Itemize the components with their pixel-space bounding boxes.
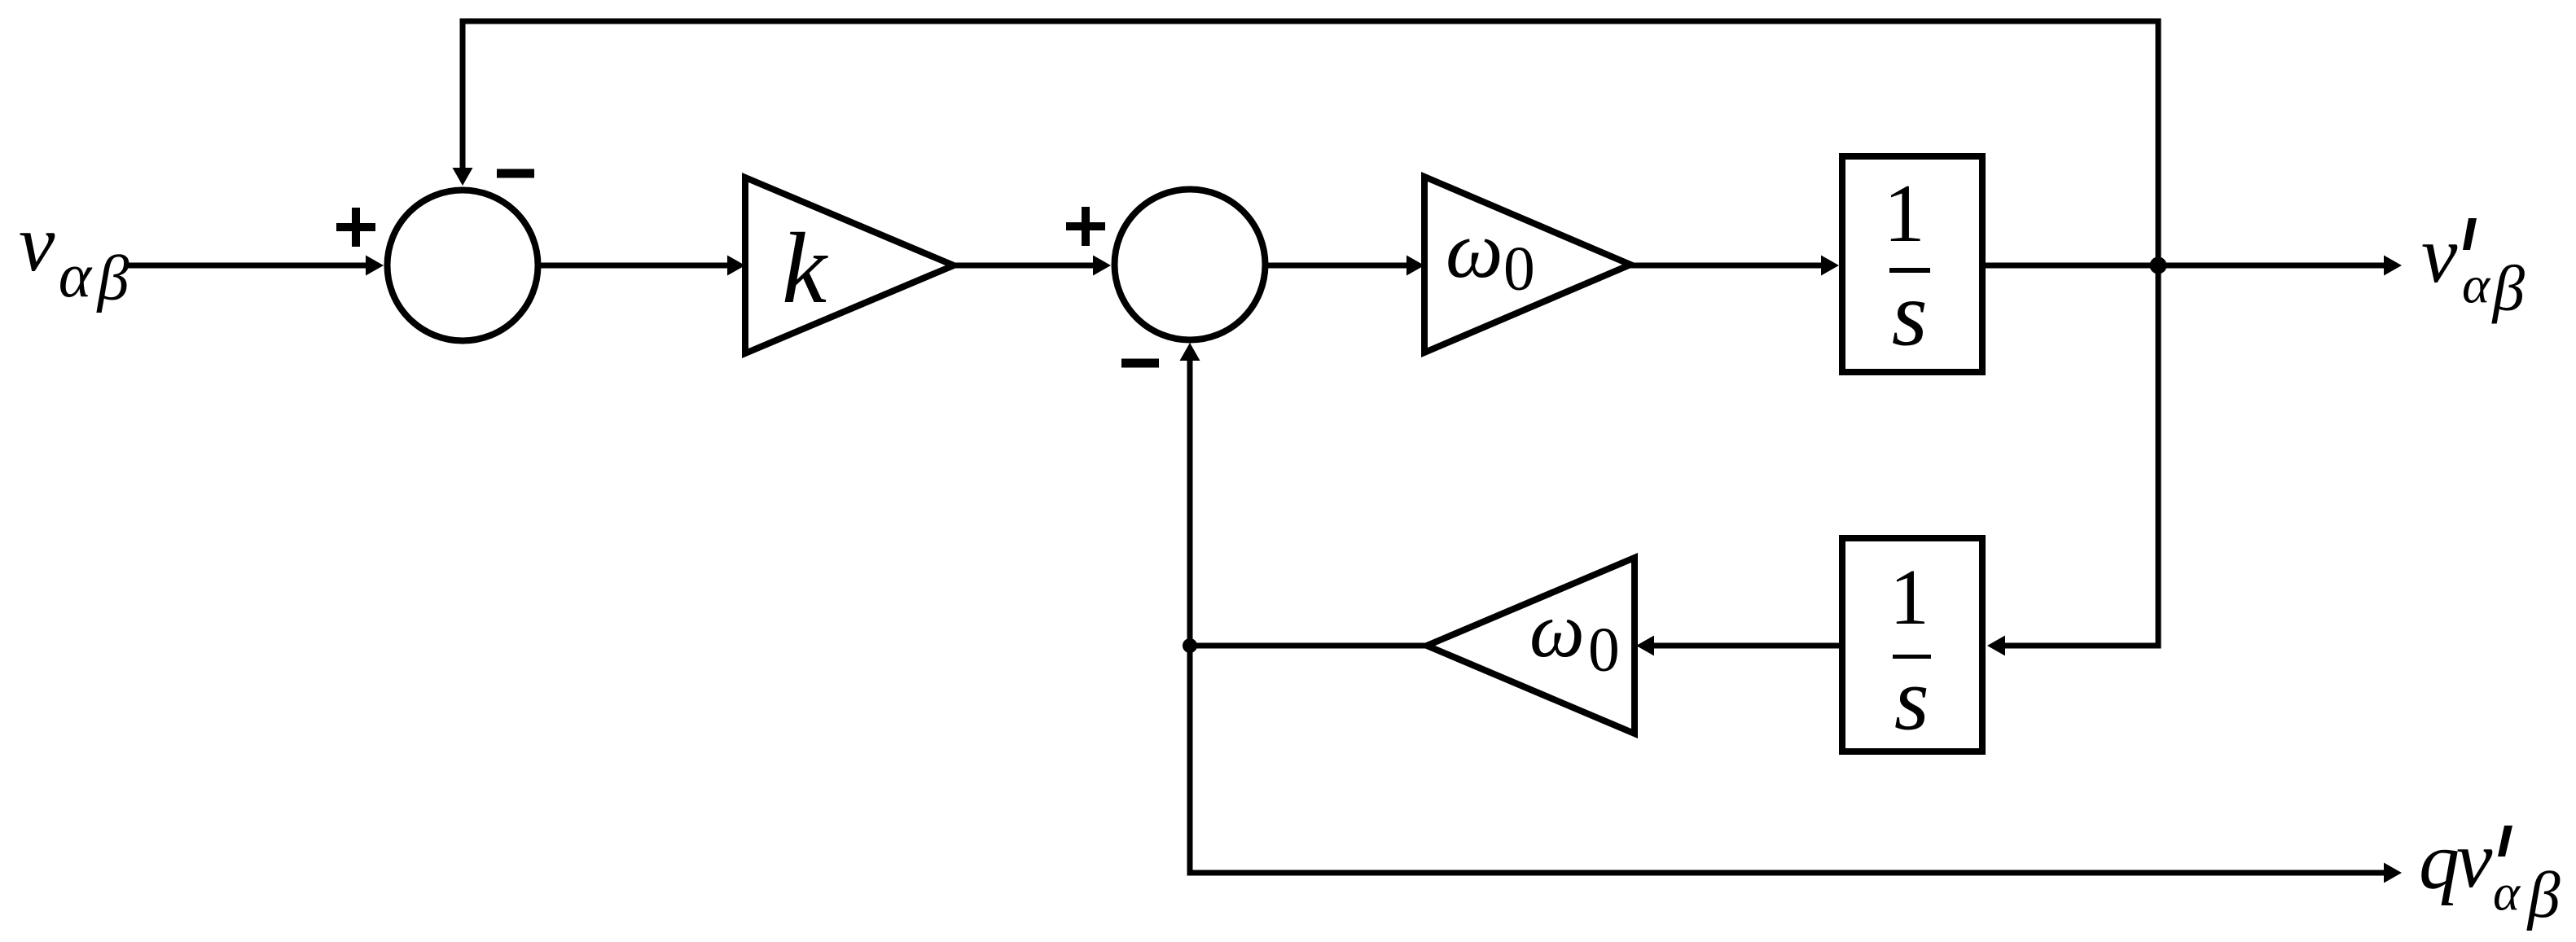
- svg-text:1: 1: [1884, 168, 1925, 259]
- svg-text:ω: ω: [1529, 586, 1585, 673]
- gain W2 value label omega0: [1529, 586, 1620, 684]
- integrator I1 box 1/s: [1842, 156, 1982, 372]
- node qv'αβ output label: [2419, 814, 2561, 931]
- plus sign at S2 input: [1066, 207, 1105, 246]
- minus sign at S2 lower input: [1121, 359, 1159, 368]
- gain W1 triangle (omega0): [1424, 177, 1630, 353]
- svg-text:v: v: [2456, 814, 2493, 905]
- wire: gain W2 to node B: [1190, 643, 1427, 649]
- wire: integrator I1 to output v'αβ through node A: [1986, 263, 2384, 269]
- wire: integrator I2 to gain W2: [1654, 643, 1839, 649]
- node vαβ input label: [19, 198, 129, 313]
- gain k triangle: [745, 177, 954, 353]
- svg-text:0: 0: [1588, 614, 1620, 684]
- node B junction dot: [1183, 638, 1197, 653]
- svg-text:v: v: [19, 198, 55, 288]
- svg-text:s: s: [1894, 650, 1929, 749]
- wire: input vαβ to summing junction S1: [128, 263, 366, 269]
- wire: node B down and right to output qv'αβ: [1190, 646, 2384, 873]
- integrator I2 box 1/s: [1842, 538, 1982, 751]
- integrator I2 label 1/s: [1889, 554, 1931, 749]
- wire: S1 to gain k: [538, 263, 727, 269]
- svg-text:1: 1: [1889, 554, 1929, 641]
- svg-text:β: β: [96, 243, 129, 313]
- svg-text:0: 0: [1503, 233, 1535, 303]
- wire: gain W1 to integrator I1: [1630, 263, 1821, 269]
- summing junction S1: [388, 191, 538, 341]
- svg-text:ω: ω: [1446, 204, 1503, 295]
- wire: feedback from node A up and over to S1 minus input: [463, 21, 2158, 265]
- gain W2 triangle (omega0, pointing left): [1427, 558, 1635, 734]
- svg-text:v: v: [2421, 209, 2458, 300]
- node v'αβ output label: [2421, 209, 2526, 324]
- svg-text:α: α: [2493, 865, 2521, 922]
- svg-text:β: β: [2526, 860, 2561, 931]
- plus sign at S1 input: [336, 208, 375, 247]
- wire: gain k to summing junction S2: [954, 263, 1093, 269]
- svg-text:β: β: [2491, 253, 2526, 324]
- svg-text:k: k: [782, 212, 828, 324]
- svg-text:α: α: [2462, 256, 2491, 315]
- minus sign at S1 feedback input: [497, 169, 534, 178]
- integrator I1 label 1/s: [1884, 168, 1930, 366]
- gain W1 value label omega0: [1446, 204, 1535, 303]
- wire: node B up into S2 bottom: [1187, 361, 1193, 646]
- svg-text:q: q: [2419, 816, 2460, 906]
- node A junction dot: [2150, 257, 2167, 274]
- wire: S2 to gain W1: [1267, 263, 1406, 269]
- wire: node A down right side to integrator I2 input: [2005, 265, 2158, 646]
- svg-text:s: s: [1892, 264, 1928, 366]
- svg-text:α: α: [59, 240, 93, 310]
- summing junction S2: [1115, 190, 1266, 340]
